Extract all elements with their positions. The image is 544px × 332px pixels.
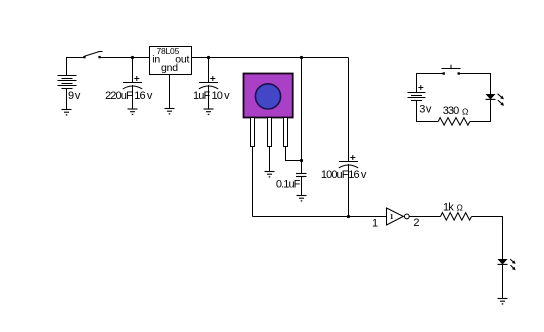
svg-text:0.1uF: 0.1uF	[276, 178, 301, 190]
ground below U2	[165, 109, 175, 115]
LED D1	[486, 94, 505, 106]
wire node to C2	[208, 58, 210, 83]
svg-text:1k: 1k	[443, 201, 454, 213]
capacitor C4 100uF 16v	[321, 155, 367, 181]
wire node to C3	[301, 161, 303, 174]
wire D2 to ground	[502, 264, 504, 298]
node junction top of feed wire	[300, 56, 303, 59]
wire S2 to right loop top-right	[460, 74, 491, 95]
wire B1 bottom to ground	[66, 89, 68, 110]
ground below C1	[128, 109, 138, 115]
switch S1	[83, 52, 102, 59]
capacitor C1 220uF 16v	[105, 76, 153, 102]
wire B2 to bottom of right loop	[417, 101, 439, 122]
node junction at pin3 and C3	[300, 159, 303, 162]
wire C3 to ground	[301, 177, 303, 196]
svg-text:2: 2	[413, 217, 419, 229]
ground below C2	[204, 109, 214, 115]
wire C2 to ground	[208, 85, 210, 109]
wire C1 to ground	[132, 85, 134, 109]
U1 pin 1	[251, 118, 255, 147]
capacitor C2 1uF 10v	[193, 76, 230, 102]
wire top rail corner down to C4	[348, 58, 350, 162]
inverter U3	[372, 208, 419, 230]
U1 pin 3	[284, 118, 288, 147]
svg-text:330: 330	[443, 105, 459, 117]
svg-text:in: in	[152, 53, 160, 65]
wire U1 pin2 to ground	[269, 147, 271, 172]
svg-text:100uF: 100uF	[321, 169, 349, 181]
wire S1 to U2 in	[100, 57, 150, 59]
wire R1 to LED D1	[470, 100, 491, 122]
svg-text:Ω: Ω	[457, 203, 463, 213]
wire vertical feed	[301, 58, 303, 161]
IR receiver module U1 body	[244, 74, 293, 118]
wire U2 out along top rail	[192, 57, 349, 59]
wire U1 pin3 to node	[286, 147, 302, 161]
LED D2	[498, 259, 516, 270]
svg-text:Ω: Ω	[462, 106, 468, 116]
battery B2 3v	[408, 85, 432, 115]
wire bottom rail	[253, 216, 387, 218]
ground below B1	[62, 110, 72, 116]
svg-text:gnd: gnd	[161, 62, 178, 74]
svg-text:3: 3	[419, 103, 425, 115]
svg-text:9: 9	[68, 90, 74, 102]
svg-text:16 v: 16 v	[348, 169, 367, 181]
node junction rail and C4	[347, 215, 350, 218]
svg-text:1: 1	[372, 218, 378, 230]
U1 pin 2	[268, 118, 272, 147]
node junction at C1	[131, 56, 134, 59]
resistor R1 330	[438, 105, 470, 125]
wire U2 gnd to ground	[169, 75, 171, 109]
svg-text:16 v: 16 v	[134, 90, 153, 102]
wire U3 out to R2	[410, 216, 441, 218]
ground below U1 pin2	[265, 172, 275, 178]
svg-text:1uF: 1uF	[193, 90, 210, 102]
pushbutton S2	[442, 65, 461, 75]
wire C4 down to bottom rail	[348, 164, 350, 217]
battery B1 9v	[58, 76, 81, 103]
svg-text:1: 1	[390, 212, 394, 221]
ground below D2	[498, 299, 508, 305]
ground below C3	[297, 196, 307, 202]
node junction at C2	[207, 56, 210, 59]
wire U1 pin1 down to bottom rail	[252, 147, 254, 217]
voltage regulator U2 78L05	[150, 46, 192, 75]
resistor R2 1k	[441, 201, 472, 220]
wire node to C1	[132, 58, 134, 83]
wire R2 to LED D2	[472, 217, 503, 260]
capacitor C3 0.1uF	[276, 174, 307, 191]
svg-text:220uF: 220uF	[105, 90, 133, 102]
wire B1 top to switch S1	[67, 58, 84, 76]
svg-text:10 v: 10 v	[212, 90, 231, 102]
wire right loop top-left	[417, 74, 444, 93]
